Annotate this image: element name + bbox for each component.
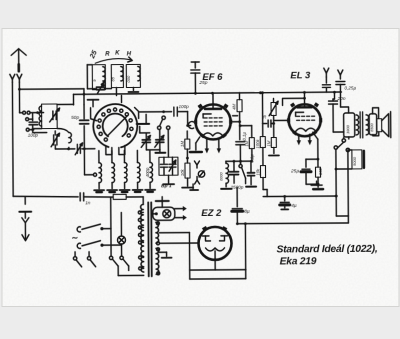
oscillator coil 5 bbox=[150, 162, 153, 182]
svg-text:100p: 100p bbox=[179, 104, 190, 109]
ground symbol left bbox=[24, 197, 26, 204]
coil L2 bbox=[69, 132, 72, 142]
IF switch contact bbox=[239, 165, 242, 168]
wire R7 bottom bbox=[251, 149, 253, 161]
dial lamp box bbox=[153, 207, 175, 220]
EF6 suppressor lead bbox=[231, 121, 240, 123]
rotary switch left tab bbox=[91, 108, 97, 121]
wire switch out bbox=[140, 111, 172, 113]
capacitor 0,1u det bbox=[250, 161, 252, 171]
IF transformer coil bbox=[226, 163, 229, 183]
resistor screen feed bbox=[237, 100, 242, 112]
wire HT rail bbox=[237, 222, 348, 225]
wire EL3 grid bbox=[274, 119, 289, 121]
wire antenna coupling top bbox=[19, 88, 83, 90]
OT switch contact bbox=[342, 139, 345, 142]
wire HT secondary bottom bbox=[160, 242, 199, 244]
EL3 pin top-left bbox=[290, 102, 295, 107]
EL3 screen bar bbox=[296, 111, 304, 113]
resistor volume pot bbox=[271, 102, 276, 115]
tube EL3 envelope bbox=[289, 104, 321, 136]
wire top coupling drop bbox=[83, 89, 85, 105]
capacitor 50p bbox=[80, 119, 89, 121]
EF6 cathode lead bbox=[196, 137, 200, 143]
mains switch pole 2 bbox=[82, 241, 101, 246]
svg-text:R: R bbox=[263, 115, 266, 120]
coil box L4 bbox=[111, 65, 123, 88]
trimmer padder B bbox=[156, 139, 164, 141]
svg-text:100k: 100k bbox=[255, 139, 260, 149]
wire speaker return bbox=[373, 132, 379, 136]
wire OT top bbox=[341, 107, 349, 113]
EL3 heater leads bbox=[298, 134, 300, 142]
wire main top bus bbox=[73, 92, 341, 94]
wire switch to coil 3 bbox=[123, 151, 125, 163]
power transformer heater secondary bbox=[156, 248, 159, 274]
EZ2 filament bbox=[206, 248, 225, 251]
EF6 anode bbox=[205, 108, 221, 111]
EL3 grid bbox=[297, 115, 300, 117]
coil box L3 bbox=[92, 65, 105, 90]
svg-text:EL 3: EL 3 bbox=[290, 70, 311, 81]
resistor 10k bbox=[185, 163, 190, 178]
rotary band switch S1 bbox=[93, 104, 137, 148]
svg-text:0000: 0000 bbox=[220, 172, 224, 181]
wire det drop bbox=[261, 93, 263, 124]
plug connector antenna bbox=[20, 112, 23, 114]
rotary switch right tab bbox=[135, 107, 139, 118]
trimmer C3 series bbox=[76, 144, 78, 153]
svg-text:4µ: 4µ bbox=[291, 203, 297, 209]
svg-text:1n: 1n bbox=[85, 200, 91, 205]
oscillator coil 2 bbox=[112, 163, 115, 183]
oscillator coil 3 bbox=[124, 163, 127, 183]
lamp stub lower bbox=[175, 217, 183, 219]
svg-text:H: H bbox=[127, 51, 132, 57]
resistor R8 100k bbox=[260, 137, 265, 148]
EL3 screen wire bbox=[283, 98, 305, 105]
svg-text:Eka 219: Eka 219 bbox=[280, 256, 317, 267]
wire switch to coil 2 bbox=[111, 151, 113, 163]
capacitor series band bbox=[96, 86, 104, 88]
dial lamp bbox=[163, 210, 171, 218]
capacitor 400p bbox=[160, 163, 167, 165]
capacitor det bbox=[267, 120, 269, 127]
wire band to bus bbox=[115, 88, 117, 96]
svg-text:25µ: 25µ bbox=[290, 168, 299, 174]
svg-text:1M: 1M bbox=[244, 140, 249, 146]
wire switch to coil 5 bbox=[149, 150, 151, 162]
capacitor 25u bypass bbox=[306, 158, 318, 160]
capacitor 100p bbox=[32, 113, 34, 120]
EZ2 anode right bbox=[219, 236, 224, 241]
EZ2 pin top-left bbox=[202, 226, 208, 231]
power transformer primary bbox=[141, 204, 144, 272]
wire bus to OT bbox=[339, 92, 341, 107]
EL3 cathode lead bbox=[313, 132, 318, 139]
resistor 1M IF bbox=[185, 139, 190, 149]
antenna terminal forks bbox=[10, 74, 15, 79]
band switch contacts S2 bbox=[162, 116, 165, 119]
wire right riser bbox=[83, 105, 85, 119]
rotary switch wiper bbox=[107, 116, 127, 136]
wire IF top rail bbox=[226, 160, 251, 162]
core adjuster bbox=[198, 171, 204, 177]
EL3 cathode resistor bbox=[315, 167, 320, 177]
chassis above switch bbox=[88, 99, 99, 101]
svg-text:R: R bbox=[105, 52, 110, 58]
ground Bp1 bbox=[168, 175, 170, 183]
svg-text:6500: 6500 bbox=[370, 122, 374, 131]
terminal fork A bbox=[194, 161, 199, 165]
wire pickup left bbox=[325, 77, 327, 83]
lamp terminal bbox=[155, 212, 158, 215]
wire band rail bbox=[87, 64, 92, 66]
wire R8 top bbox=[262, 124, 264, 137]
capacitor 1n series bbox=[79, 193, 81, 201]
svg-text:Standard Ideál (1022),: Standard Ideál (1022), bbox=[277, 244, 378, 256]
fuse bbox=[113, 194, 126, 199]
trimmer C2 bbox=[53, 135, 55, 145]
rotary switch bottom tab bbox=[106, 146, 112, 155]
wire mains riser bbox=[110, 198, 112, 256]
EF6 grid bbox=[204, 117, 207, 119]
svg-text:150: 150 bbox=[318, 167, 323, 175]
capacitor 2500p bbox=[230, 171, 239, 173]
terminal fork B bbox=[195, 180, 200, 184]
pickup fork 2 bbox=[338, 70, 343, 75]
output transformer Tr2 bbox=[344, 113, 355, 137]
svg-text:K: K bbox=[115, 51, 120, 57]
EF6 grid leads left bbox=[195, 121, 197, 123]
wire HT secondary top bbox=[159, 232, 189, 234]
pickup fork 1 bbox=[324, 68, 329, 73]
ground HT centre tap bbox=[158, 251, 166, 253]
tube EF6 envelope bbox=[196, 104, 231, 139]
svg-text:4M: 4M bbox=[232, 103, 237, 109]
EZ2 anode left bbox=[205, 236, 210, 241]
trimmer C1 bbox=[52, 111, 54, 119]
tube EZ2 envelope bbox=[198, 227, 231, 260]
svg-text:10k: 10k bbox=[180, 168, 185, 176]
wire field left bbox=[335, 150, 337, 216]
primary taps bbox=[138, 211, 141, 214]
oscillator coil 4 bbox=[137, 162, 140, 182]
wire switch to coil 1 bbox=[98, 151, 100, 163]
EF6 pin top-right bbox=[223, 103, 228, 108]
capacitor 4u bbox=[284, 196, 286, 200]
EZ2 pin top-right bbox=[222, 226, 228, 231]
resistor R10 10k bbox=[260, 166, 265, 178]
svg-text:000: 000 bbox=[126, 75, 131, 82]
EF6 heater leads bbox=[206, 139, 208, 151]
antenna symbol bbox=[11, 49, 26, 56]
wire chassis right bbox=[263, 195, 336, 198]
svg-text:8µ: 8µ bbox=[244, 209, 250, 215]
grid cap hook bbox=[188, 122, 193, 129]
svg-text:50p: 50p bbox=[71, 115, 79, 121]
trimmer Bp1 bbox=[169, 163, 176, 165]
speaker field switch bbox=[334, 146, 337, 149]
oscillator coil 1 bbox=[99, 163, 102, 183]
wire grid drop bbox=[187, 112, 189, 126]
EF6 cathode bbox=[203, 133, 223, 136]
wire switch to coil 4 bbox=[136, 150, 138, 162]
mains switch pole 1 bbox=[82, 224, 101, 229]
EL3 cathode bbox=[296, 128, 316, 131]
coil L1 antenna bbox=[42, 104, 58, 129]
svg-text:400p: 400p bbox=[145, 167, 150, 177]
wire antenna left down bbox=[11, 82, 14, 196]
tone switch contacts bbox=[73, 257, 76, 260]
trimmer padder A bbox=[142, 139, 150, 141]
svg-text:0,25µ: 0,25µ bbox=[344, 85, 356, 90]
speaker bbox=[377, 119, 382, 132]
shaft bar bbox=[137, 123, 149, 125]
ground above lamp bbox=[161, 201, 163, 207]
capacitor 0,25u bbox=[336, 80, 345, 82]
wire L1 top bbox=[57, 103, 73, 105]
svg-text:1800: 1800 bbox=[345, 124, 350, 134]
wire EZ2 output box bbox=[189, 232, 245, 270]
wire field right bbox=[347, 152, 349, 216]
wire junction row bbox=[33, 128, 42, 130]
svg-text:100p: 100p bbox=[28, 133, 39, 138]
resistor R7 1M bbox=[249, 138, 254, 149]
svg-text:EF 6: EF 6 bbox=[202, 72, 223, 83]
EF6 screen bar bbox=[203, 113, 211, 115]
wire selector down bbox=[117, 266, 119, 275]
EL3 rim pins bbox=[287, 118, 290, 122]
power transformer HT secondary bbox=[156, 222, 159, 243]
lamp stub upper bbox=[175, 208, 183, 210]
wire padder rail bbox=[140, 132, 150, 134]
wire bottom bus left bbox=[13, 196, 78, 197]
field coil 5000 bbox=[352, 150, 362, 169]
selector switch contacts bbox=[109, 256, 112, 259]
EL3 pin top-right bbox=[314, 102, 319, 107]
wave trap box Bp 1 bbox=[159, 157, 178, 175]
svg-text:10k: 10k bbox=[255, 168, 260, 176]
capacitor 20n bbox=[333, 92, 335, 99]
resistor R9 1M bbox=[271, 137, 276, 147]
wire bus left end bbox=[72, 94, 74, 104]
capacitor 8u bbox=[236, 188, 238, 207]
capacitor 100p grid bbox=[173, 107, 175, 116]
svg-text:1M: 1M bbox=[266, 140, 271, 146]
wire padder bottom bbox=[146, 149, 159, 151]
capacitor 0,1u screen bbox=[236, 141, 245, 143]
capacitor 25p bbox=[194, 62, 196, 68]
svg-text:5000: 5000 bbox=[352, 156, 357, 166]
power transformer core bbox=[147, 202, 150, 276]
EF6 pin top-left bbox=[198, 104, 203, 109]
terminal circle osc bbox=[93, 173, 96, 176]
coil box L5 bbox=[126, 64, 140, 87]
svg-text:EZ 2: EZ 2 bbox=[201, 208, 222, 219]
ground bar right bbox=[311, 184, 322, 186]
voltage selector lamp bbox=[117, 236, 125, 244]
ground L5 bbox=[132, 87, 134, 90]
mains terminal hooks bbox=[77, 227, 80, 232]
wire L2 bottom bbox=[55, 148, 68, 150]
svg-text:∼: ∼ bbox=[71, 233, 78, 242]
wire antenna right down bbox=[18, 82, 20, 112]
svg-text:0,1µ: 0,1µ bbox=[242, 132, 247, 141]
svg-text:1M: 1M bbox=[180, 141, 185, 147]
band selector arc bbox=[95, 59, 132, 64]
EF6 rim pins bbox=[194, 120, 197, 124]
EL3 anode bbox=[298, 106, 312, 109]
